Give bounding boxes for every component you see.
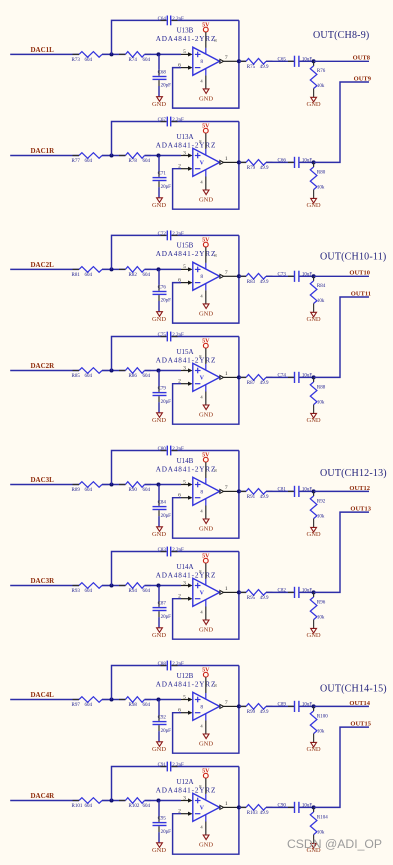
svg-text:10k: 10k bbox=[317, 299, 325, 304]
svg-text:GND: GND bbox=[307, 632, 321, 639]
junction output node bbox=[237, 704, 241, 708]
svg-text:GND: GND bbox=[152, 316, 166, 323]
svg-text:R90: R90 bbox=[129, 488, 138, 493]
svg-text:R95: R95 bbox=[247, 596, 256, 601]
svg-text:C87: C87 bbox=[158, 602, 167, 607]
junction node B bbox=[157, 483, 161, 487]
junction output node bbox=[237, 805, 241, 809]
svg-text:C95: C95 bbox=[158, 817, 167, 822]
wire DAC4R input bbox=[10, 800, 79, 802]
pin 6 inverting input bbox=[181, 282, 188, 284]
capacitor C72 2.2nF feedback bbox=[161, 234, 167, 236]
svg-text:GND: GND bbox=[152, 417, 166, 424]
wire net OUT13 bbox=[314, 512, 369, 592]
ground symbol below shunt cap bbox=[157, 527, 163, 532]
capacitor C92 20pF shunt bbox=[158, 700, 160, 716]
wire feedback loop bbox=[173, 491, 239, 538]
svg-text:604: 604 bbox=[85, 703, 93, 708]
wire node B segment bbox=[145, 53, 182, 55]
wire DAC3R input bbox=[10, 585, 79, 587]
capacitor C64 2.2nF feedback bbox=[161, 19, 167, 21]
svg-text:2: 2 bbox=[178, 379, 181, 385]
op-amp U12B ADA4841-2YRZ bbox=[193, 692, 220, 720]
svg-text:C67: C67 bbox=[158, 118, 167, 123]
junction node A bbox=[110, 369, 114, 373]
ground symbol below shunt resistor bbox=[311, 628, 317, 633]
junction output node bbox=[237, 590, 241, 594]
svg-text:DAC2L: DAC2L bbox=[31, 261, 55, 269]
svg-text:C68: C68 bbox=[158, 71, 167, 76]
svg-text:DAC3R: DAC3R bbox=[31, 577, 56, 585]
svg-text:U15B: U15B bbox=[177, 242, 194, 250]
svg-text:GND: GND bbox=[199, 310, 213, 317]
svg-text:R104: R104 bbox=[317, 815, 328, 820]
svg-text:C76: C76 bbox=[158, 286, 167, 291]
wire node B segment bbox=[145, 699, 182, 701]
capacitor C76 20pF shunt bbox=[158, 269, 160, 285]
svg-text:49.9: 49.9 bbox=[260, 65, 269, 70]
pin 8 V+ stub bbox=[205, 677, 207, 693]
svg-text:OUT(CH14-15): OUT(CH14-15) bbox=[320, 684, 387, 695]
junction node A bbox=[110, 52, 114, 56]
svg-text:6: 6 bbox=[178, 63, 181, 69]
wire feedback-cap riser and top run bbox=[112, 767, 167, 801]
pin 7 output bbox=[220, 274, 224, 278]
resistor R90 604 bbox=[125, 482, 144, 488]
svg-text:R83: R83 bbox=[247, 280, 256, 285]
svg-text:U13A: U13A bbox=[176, 133, 193, 141]
ground symbol below shunt resistor bbox=[311, 742, 317, 747]
capacitor C67 2.2nF feedback bbox=[161, 121, 167, 123]
svg-text:C79: C79 bbox=[158, 387, 167, 392]
svg-text:OUT12: OUT12 bbox=[349, 485, 370, 492]
junction output node bbox=[237, 160, 241, 164]
wire net OUT12 bbox=[314, 490, 369, 492]
pin 5 non-inverting input bbox=[181, 268, 188, 270]
svg-text:604: 604 bbox=[143, 58, 151, 63]
pin 2 inverting input bbox=[181, 813, 188, 815]
svg-text:10k: 10k bbox=[317, 615, 325, 620]
svg-text:GND: GND bbox=[307, 202, 321, 209]
wire node A segment bbox=[102, 53, 125, 55]
svg-text:R81: R81 bbox=[72, 273, 81, 278]
svg-text:2.2nF: 2.2nF bbox=[172, 232, 184, 237]
svg-text:U15A: U15A bbox=[176, 348, 193, 356]
svg-text:GND: GND bbox=[152, 746, 166, 753]
pin 4 V- stub bbox=[205, 170, 207, 177]
svg-text:R101: R101 bbox=[72, 804, 83, 809]
svg-text:604: 604 bbox=[85, 374, 93, 379]
svg-text:49.9: 49.9 bbox=[260, 596, 269, 601]
svg-text:GND: GND bbox=[152, 632, 166, 639]
svg-text:OUT13: OUT13 bbox=[350, 506, 371, 513]
wire node A segment bbox=[102, 585, 125, 587]
svg-text:OUT15: OUT15 bbox=[350, 721, 371, 728]
svg-text:C73: C73 bbox=[278, 272, 287, 277]
capacitor C75 2.2nF feedback bbox=[161, 336, 167, 338]
svg-text:U12A: U12A bbox=[176, 778, 193, 786]
svg-text:20pF: 20pF bbox=[161, 830, 172, 835]
resistor R102 604 bbox=[125, 798, 144, 804]
wire shunt cap to ground bbox=[158, 725, 160, 731]
wire feedback-cap drop to output node bbox=[238, 20, 240, 61]
junction output filter node bbox=[312, 704, 316, 708]
resistor R77 604 bbox=[79, 153, 102, 159]
svg-text:1: 1 bbox=[225, 371, 228, 377]
svg-text:GND: GND bbox=[199, 525, 213, 532]
svg-text:C91: C91 bbox=[158, 763, 167, 768]
pin 5 non-inverting input bbox=[181, 53, 188, 55]
resistor R94 604 bbox=[125, 583, 144, 589]
svg-text:C83: C83 bbox=[158, 548, 167, 553]
wire feedback-cap drop to output node bbox=[238, 451, 240, 492]
resistor R86 604 bbox=[125, 368, 144, 374]
svg-text:2: 2 bbox=[178, 809, 181, 815]
wire feedback-cap riser and top run bbox=[112, 20, 167, 54]
svg-text:5: 5 bbox=[183, 694, 186, 700]
resistor R91 49.9 series output bbox=[239, 490, 246, 492]
svg-text:DAC1L: DAC1L bbox=[31, 46, 55, 54]
capacitor C81 10uF output bbox=[288, 490, 294, 492]
wire feedback-cap riser and top run bbox=[112, 451, 167, 485]
svg-text:GND: GND bbox=[307, 417, 321, 424]
svg-text:2.2nF: 2.2nF bbox=[172, 662, 184, 667]
svg-text:5: 5 bbox=[183, 49, 186, 55]
pin 5 non-inverting input bbox=[181, 484, 188, 486]
svg-text:3: 3 bbox=[183, 365, 186, 371]
svg-text:R93: R93 bbox=[72, 589, 81, 594]
junction output node bbox=[237, 489, 241, 493]
junction node B bbox=[157, 52, 161, 56]
wire feedback loop bbox=[173, 807, 239, 854]
svg-text:49.9: 49.9 bbox=[260, 166, 269, 171]
svg-text:49.9: 49.9 bbox=[260, 495, 269, 500]
svg-text:7: 7 bbox=[225, 55, 228, 61]
wire shunt cap to ground bbox=[158, 611, 160, 617]
svg-text:R73: R73 bbox=[72, 58, 81, 63]
svg-text:C80: C80 bbox=[158, 447, 167, 452]
resistor R87 49.9 series output bbox=[239, 376, 246, 378]
ground symbol below shunt cap bbox=[157, 198, 163, 203]
svg-text:C64: C64 bbox=[158, 17, 167, 22]
wire DAC2L input bbox=[10, 268, 79, 270]
wire feedback-cap riser and top run bbox=[112, 552, 167, 586]
svg-text:OUT9: OUT9 bbox=[354, 75, 372, 82]
svg-text:3: 3 bbox=[183, 150, 186, 156]
pin 3 non-inverting input bbox=[181, 370, 188, 372]
junction output filter node bbox=[312, 805, 316, 809]
svg-text:R88: R88 bbox=[317, 385, 326, 390]
ground symbol below shunt cap bbox=[157, 628, 163, 633]
pin 6 inverting input bbox=[181, 712, 188, 714]
resistor R74 604 bbox=[125, 52, 144, 58]
op-amp U14B ADA4841-2YRZ bbox=[193, 477, 220, 505]
svg-text:R94: R94 bbox=[129, 589, 138, 594]
svg-text:604: 604 bbox=[85, 273, 93, 278]
pin 3 non-inverting input bbox=[181, 800, 188, 802]
svg-text:C72: C72 bbox=[158, 232, 167, 237]
resistor R103 49.9 series output bbox=[239, 806, 246, 808]
junction node B bbox=[157, 154, 161, 158]
pin 5 non-inverting input bbox=[181, 699, 188, 701]
pin 1 output bbox=[220, 375, 224, 379]
svg-text:ADA4841-2YRZ: ADA4841-2YRZ bbox=[156, 35, 217, 43]
svg-text:U14A: U14A bbox=[176, 563, 193, 571]
svg-text:2.2nF: 2.2nF bbox=[172, 17, 184, 22]
svg-text:GND: GND bbox=[199, 95, 213, 102]
svg-text:V: V bbox=[200, 161, 205, 167]
svg-text:R74: R74 bbox=[129, 58, 138, 63]
svg-text:2.2nF: 2.2nF bbox=[172, 333, 184, 338]
resistor R98 604 bbox=[125, 697, 144, 703]
svg-text:GND: GND bbox=[307, 531, 321, 538]
wire feedback-cap drop to output node bbox=[238, 666, 240, 707]
resistor R84 10k shunt to ground bbox=[313, 276, 315, 281]
svg-text:GND: GND bbox=[199, 411, 213, 418]
junction output node bbox=[237, 59, 241, 63]
wire shunt cap to ground bbox=[158, 826, 160, 832]
pin 8 V+ stub bbox=[205, 133, 207, 149]
svg-text:V: V bbox=[200, 591, 205, 597]
svg-text:R80: R80 bbox=[317, 170, 326, 175]
wire node B segment bbox=[145, 268, 182, 270]
junction node B bbox=[157, 698, 161, 702]
junction output filter node bbox=[312, 489, 316, 493]
svg-text:3: 3 bbox=[183, 795, 186, 801]
pin 4 V- stub bbox=[205, 68, 207, 75]
wire feedback loop bbox=[173, 162, 239, 209]
svg-text:10k: 10k bbox=[317, 729, 325, 734]
op-amp U15A ADA4841-2YRZ bbox=[193, 363, 220, 391]
junction output filter node bbox=[312, 274, 316, 278]
svg-text:604: 604 bbox=[85, 488, 93, 493]
svg-text:ADA4841-2YRZ: ADA4841-2YRZ bbox=[156, 357, 217, 365]
wire shunt cap to ground bbox=[158, 396, 160, 402]
svg-text:V: V bbox=[200, 806, 205, 812]
svg-text:7: 7 bbox=[225, 485, 228, 491]
wire net OUT14 bbox=[314, 705, 369, 707]
svg-text:604: 604 bbox=[85, 159, 93, 164]
svg-text:604: 604 bbox=[143, 589, 151, 594]
svg-text:5: 5 bbox=[183, 479, 186, 485]
resistor R95 49.9 series output bbox=[239, 591, 246, 593]
junction node A bbox=[110, 483, 114, 487]
svg-text:U12B: U12B bbox=[177, 672, 194, 680]
svg-text:2.2nF: 2.2nF bbox=[172, 447, 184, 452]
resistor R92 10k shunt to ground bbox=[313, 491, 315, 496]
svg-text:C75: C75 bbox=[158, 333, 167, 338]
junction node A bbox=[110, 267, 114, 271]
svg-text:OUT8: OUT8 bbox=[353, 55, 371, 62]
svg-text:GND: GND bbox=[199, 841, 213, 848]
wire to output cap bbox=[266, 806, 294, 808]
svg-text:604: 604 bbox=[143, 488, 151, 493]
svg-text:ADA4841-2YRZ: ADA4841-2YRZ bbox=[156, 680, 217, 688]
ground symbol below shunt resistor bbox=[311, 312, 317, 317]
pin 4 V- stub bbox=[205, 600, 207, 607]
svg-text:1: 1 bbox=[225, 586, 228, 592]
capacitor C68 20pF shunt bbox=[158, 54, 160, 70]
svg-text:ADA4841-2YRZ: ADA4841-2YRZ bbox=[156, 142, 217, 150]
svg-text:GND: GND bbox=[152, 531, 166, 538]
svg-text:2.2nF: 2.2nF bbox=[172, 548, 184, 553]
op-amp U15B ADA4841-2YRZ bbox=[193, 262, 220, 290]
pin 7 output bbox=[220, 704, 224, 708]
resistor R104 10k shunt to ground bbox=[313, 807, 315, 812]
resistor R89 604 bbox=[79, 482, 102, 488]
pin 2 inverting input bbox=[181, 168, 188, 170]
junction output node bbox=[237, 274, 241, 278]
svg-text:604: 604 bbox=[143, 374, 151, 379]
wire DAC3L input bbox=[10, 484, 79, 486]
resistor R73 604 bbox=[79, 52, 102, 58]
ground symbol below op-amp bbox=[203, 190, 209, 195]
pin 4 V- stub bbox=[205, 499, 207, 506]
pin 4 V- stub bbox=[205, 385, 207, 392]
pin 2 inverting input bbox=[181, 383, 188, 385]
ground symbol below op-amp bbox=[203, 734, 209, 739]
svg-text:8: 8 bbox=[200, 274, 203, 280]
wire node A segment bbox=[102, 155, 125, 157]
junction node B bbox=[157, 799, 161, 803]
svg-text:10k: 10k bbox=[317, 830, 325, 835]
wire feedback loop bbox=[173, 592, 239, 639]
svg-text:R86: R86 bbox=[129, 374, 138, 379]
svg-text:C71: C71 bbox=[158, 172, 167, 177]
pin 8 V+ stub bbox=[205, 778, 207, 794]
svg-text:20pF: 20pF bbox=[161, 729, 172, 734]
svg-text:604: 604 bbox=[85, 589, 93, 594]
resistor R75 49.9 series output bbox=[239, 60, 246, 62]
svg-text:C81: C81 bbox=[278, 488, 287, 493]
wire net OUT11 bbox=[314, 297, 369, 377]
ground symbol below shunt cap bbox=[157, 843, 163, 848]
pin 6 inverting input bbox=[181, 497, 188, 499]
resistor R81 604 bbox=[79, 267, 102, 273]
ground symbol below op-amp bbox=[203, 620, 209, 625]
wire feedback-cap drop to output node bbox=[238, 552, 240, 593]
svg-text:R84: R84 bbox=[317, 284, 326, 289]
svg-text:OUT(CH8-9): OUT(CH8-9) bbox=[313, 30, 369, 41]
svg-text:2.2nF: 2.2nF bbox=[172, 763, 184, 768]
capacitor C84 20pF shunt bbox=[158, 485, 160, 501]
ground symbol below shunt resistor bbox=[311, 843, 317, 848]
svg-text:10k: 10k bbox=[317, 185, 325, 190]
pin 4 V- stub bbox=[205, 714, 207, 721]
svg-text:U13B: U13B bbox=[177, 27, 194, 35]
pin 1 output bbox=[220, 805, 224, 809]
svg-text:R98: R98 bbox=[129, 703, 138, 708]
svg-text:8: 8 bbox=[200, 59, 203, 65]
pin 8 V+ stub bbox=[205, 247, 207, 263]
svg-text:R87: R87 bbox=[247, 381, 256, 386]
ground symbol below shunt resistor bbox=[311, 413, 317, 418]
wire DAC4L input bbox=[10, 699, 79, 701]
pin 7 output bbox=[220, 489, 224, 493]
resistor R79 49.9 series output bbox=[239, 161, 246, 163]
svg-text:1: 1 bbox=[225, 156, 228, 162]
wire to output cap bbox=[266, 161, 294, 163]
svg-text:C88: C88 bbox=[158, 662, 167, 667]
wire node B segment bbox=[145, 155, 182, 157]
ground symbol below op-amp bbox=[203, 835, 209, 840]
wire feedback-cap riser and top run bbox=[112, 235, 167, 269]
ground symbol below shunt cap bbox=[157, 742, 163, 747]
svg-text:U14B: U14B bbox=[177, 457, 194, 465]
svg-text:8: 8 bbox=[200, 489, 203, 495]
capacitor C87 20pF shunt bbox=[158, 586, 160, 602]
resistor R80 10k shunt to ground bbox=[313, 162, 315, 167]
svg-text:604: 604 bbox=[85, 58, 93, 63]
svg-text:604: 604 bbox=[143, 159, 151, 164]
svg-text:R76: R76 bbox=[317, 69, 326, 74]
wire feedback loop bbox=[173, 276, 239, 323]
wire to output cap bbox=[266, 275, 294, 277]
svg-text:GND: GND bbox=[307, 316, 321, 323]
wire DAC2R input bbox=[10, 370, 79, 372]
pin 1 output bbox=[220, 590, 224, 594]
wire feedback-cap riser and top run bbox=[112, 122, 167, 156]
wire node B segment bbox=[145, 370, 182, 372]
junction node B bbox=[157, 369, 161, 373]
pin 8 V+ stub bbox=[205, 563, 207, 579]
svg-text:R89: R89 bbox=[72, 488, 81, 493]
svg-text:R97: R97 bbox=[72, 703, 81, 708]
op-amp U13A ADA4841-2YRZ bbox=[193, 148, 220, 176]
resistor R76 10k shunt to ground bbox=[313, 61, 315, 66]
svg-text:R78: R78 bbox=[129, 159, 138, 164]
svg-text:1: 1 bbox=[225, 801, 228, 807]
wire DAC1R input bbox=[10, 155, 79, 157]
wire node B segment bbox=[145, 585, 182, 587]
capacitor C89 10uF output bbox=[288, 705, 294, 707]
svg-text:ADA4841-2YRZ: ADA4841-2YRZ bbox=[156, 572, 217, 580]
junction node B bbox=[157, 584, 161, 588]
svg-text:8: 8 bbox=[200, 704, 203, 710]
wire shunt cap to ground bbox=[158, 181, 160, 187]
wire net OUT10 bbox=[314, 275, 369, 277]
svg-text:OUT10: OUT10 bbox=[349, 270, 370, 277]
pin 4 V- stub bbox=[205, 815, 207, 822]
wire node A segment bbox=[102, 484, 125, 486]
wire node A segment bbox=[102, 699, 125, 701]
svg-text:C82: C82 bbox=[278, 589, 287, 594]
ground symbol below shunt resistor bbox=[311, 97, 317, 102]
svg-text:R103: R103 bbox=[247, 811, 258, 816]
wire feedback loop bbox=[173, 61, 239, 108]
svg-text:20pF: 20pF bbox=[161, 185, 172, 190]
pin 3 non-inverting input bbox=[181, 155, 188, 157]
wire feedback-cap drop to output node bbox=[238, 235, 240, 276]
wire to output cap bbox=[266, 376, 294, 378]
wire feedback-cap drop to output node bbox=[238, 337, 240, 378]
svg-text:V: V bbox=[200, 376, 205, 382]
svg-text:6: 6 bbox=[178, 278, 181, 284]
svg-text:GND: GND bbox=[152, 847, 166, 854]
junction output node bbox=[237, 375, 241, 379]
svg-text:GND: GND bbox=[307, 746, 321, 753]
svg-text:C84: C84 bbox=[158, 501, 167, 506]
capacitor C74 10uF output bbox=[288, 376, 294, 378]
svg-text:604: 604 bbox=[143, 804, 151, 809]
svg-text:R96: R96 bbox=[317, 600, 326, 605]
pin 1 output bbox=[220, 160, 224, 164]
wire node B segment bbox=[145, 800, 182, 802]
wire feedback-cap drop to output node bbox=[238, 767, 240, 808]
svg-text:20pF: 20pF bbox=[161, 299, 172, 304]
svg-text:ADA4841-2YRZ: ADA4841-2YRZ bbox=[156, 465, 217, 473]
svg-text:GND: GND bbox=[152, 202, 166, 209]
